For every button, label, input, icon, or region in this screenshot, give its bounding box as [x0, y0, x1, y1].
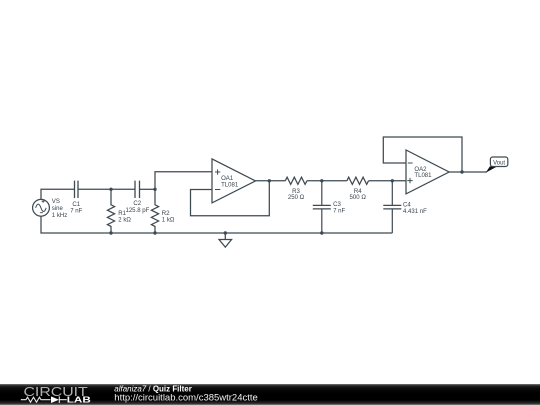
C2 labels	[125, 201, 149, 214]
svg-text:TL081: TL081	[221, 183, 239, 189]
R4 labels	[350, 189, 367, 201]
R3 labels	[288, 189, 305, 201]
svg-text:1 kΩ: 1 kΩ	[162, 217, 175, 223]
svg-text:R2: R2	[162, 211, 170, 217]
svg-text:sine: sine	[52, 206, 64, 212]
capacitor C4	[383, 181, 401, 233]
svg-text:125.8 pF: 125.8 pF	[125, 208, 149, 214]
source VS	[33, 199, 50, 216]
svg-text:R3: R3	[292, 189, 300, 195]
svg-text:7 nF: 7 nF	[70, 208, 82, 214]
resistor R1	[107, 189, 114, 233]
op-amp OA1	[212, 159, 256, 203]
wire C2 to R2 node	[140, 188, 156, 190]
svg-text:OA2: OA2	[414, 167, 427, 173]
svg-text:C1: C1	[72, 202, 80, 208]
C4 labels	[403, 202, 427, 215]
resistor R4	[347, 177, 369, 184]
capacitor C2	[135, 181, 140, 198]
svg-text:R1: R1	[118, 211, 126, 217]
svg-text:2 kΩ: 2 kΩ	[118, 217, 131, 223]
wire VS top	[41, 189, 75, 199]
svg-text:LAB: LAB	[67, 395, 91, 405]
svg-text:4.431 nF: 4.431 nF	[403, 209, 427, 215]
OA2 feedback wire	[383, 137, 462, 172]
svg-text:Vout: Vout	[493, 160, 505, 166]
op-amp OA2	[406, 150, 449, 194]
svg-text:7 nF: 7 nF	[333, 209, 345, 215]
svg-text:OA1: OA1	[221, 176, 234, 182]
OA1 feedback wire	[191, 181, 270, 216]
VS labels	[52, 199, 67, 219]
node dots	[109, 170, 463, 234]
R2 labels	[162, 211, 175, 223]
svg-text:http://circuitlab.com/c385wtr2: http://circuitlab.com/c385wtr24ctte	[114, 393, 258, 403]
svg-text:250 Ω: 250 Ω	[288, 195, 305, 201]
wire C1 to C2	[78, 188, 135, 190]
svg-text:VS: VS	[52, 199, 60, 205]
C3 labels	[333, 202, 345, 215]
wire OA2 output	[449, 171, 487, 173]
OA2 labels	[414, 167, 432, 179]
wire OA1 output	[256, 180, 286, 182]
C1 labels	[70, 202, 82, 215]
footer bar	[0, 384, 540, 405]
ground	[219, 233, 232, 247]
svg-text:R4: R4	[354, 189, 362, 195]
capacitor C3	[313, 181, 331, 233]
svg-text:C4: C4	[403, 202, 411, 208]
wire riser to OA1 + input	[155, 172, 212, 190]
svg-text:1 kHz: 1 kHz	[52, 213, 67, 219]
wire R4 to OA2	[369, 180, 407, 182]
svg-text:C3: C3	[333, 202, 341, 208]
svg-text:C2: C2	[133, 201, 141, 207]
capacitor C1	[75, 181, 79, 198]
svg-text:500 Ω: 500 Ω	[350, 195, 367, 201]
resistor R2	[151, 189, 158, 233]
wire R3 to R4	[307, 180, 347, 182]
Vout flag	[486, 157, 508, 173]
OA1 labels	[221, 176, 239, 189]
resistor R3	[285, 177, 307, 184]
bottom rail	[41, 216, 392, 233]
R1 labels	[118, 211, 131, 223]
svg-text:TL081: TL081	[414, 173, 432, 179]
logo resistor-diode glyph	[21, 396, 67, 403]
